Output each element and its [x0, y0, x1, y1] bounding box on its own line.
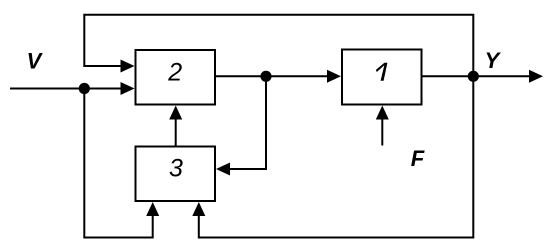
svg-text:F: F [411, 146, 425, 171]
svg-text:V: V [27, 49, 44, 74]
svg-text:Y: Y [485, 48, 502, 73]
svg-text:3: 3 [169, 155, 183, 183]
svg-text:2: 2 [167, 59, 182, 87]
